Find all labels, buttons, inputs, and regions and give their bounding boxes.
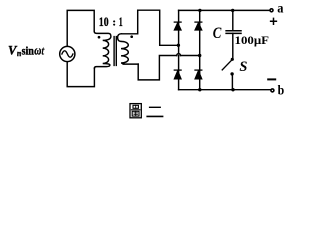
caption glyph tu (figure) <box>130 104 141 118</box>
wire: bottom rail to terminal b <box>179 89 271 91</box>
node: capacitor / top wire <box>231 9 234 12</box>
svg-text:S: S <box>239 59 247 75</box>
AC source sine symbol <box>62 51 73 57</box>
label 10 : 1 <box>99 15 123 29</box>
secondary polarity dot <box>130 35 133 38</box>
svg-text:sin: sin <box>22 45 35 57</box>
svg-text:b: b <box>278 82 285 97</box>
diode D4 (bottom right) <box>195 70 202 79</box>
switch blade <box>222 60 231 70</box>
svg-text:1: 1 <box>119 15 123 29</box>
transformer primary winding <box>94 31 111 68</box>
caption glyph er (two) <box>147 107 162 116</box>
wire: secondary top lead staircase to bridge <box>121 10 178 45</box>
node: switch / bottom wire <box>231 88 234 91</box>
minus sign <box>268 78 275 80</box>
switch top contact <box>231 58 234 61</box>
svg-text:10: 10 <box>99 15 109 29</box>
wire: source bottom lead and bottom of primary loop <box>67 62 94 87</box>
svg-text:ω: ω <box>34 43 41 57</box>
node: crossover / right rail junction <box>198 54 201 57</box>
bridge right rail <box>199 10 201 89</box>
diode D2 (top right) <box>195 22 202 30</box>
node: right rail / top wire <box>198 9 201 12</box>
source label Vm sin wt <box>8 42 45 58</box>
node: secondary top lead / left rail junction <box>177 44 180 47</box>
primary polarity dot <box>98 36 101 39</box>
diode D1 (top left) <box>174 22 181 30</box>
wire: top rail to terminal a <box>179 9 271 11</box>
bridge left rail <box>178 10 180 89</box>
switch bottom lead <box>231 75 233 90</box>
node: right rail / bottom wire <box>198 88 201 91</box>
AC source V1 circle <box>60 46 75 61</box>
svg-text:100μF: 100μF <box>235 33 270 47</box>
transformer core lines <box>114 37 116 66</box>
wire: secondary bottom lead <box>138 56 177 80</box>
switch bottom contact <box>230 72 233 75</box>
terminal a circle <box>270 9 273 12</box>
plus sign <box>271 18 277 24</box>
svg-text:C: C <box>213 25 222 42</box>
capacitor C top lead <box>232 10 234 30</box>
diode D3 (bottom left) <box>174 70 181 79</box>
wire: source top lead and top of primary loop <box>67 10 94 46</box>
wire: crossover to right rail <box>181 55 200 57</box>
terminal b circle <box>271 89 274 92</box>
svg-text:a: a <box>277 2 283 17</box>
transformer secondary winding <box>118 34 139 64</box>
svg-text::: : <box>112 16 116 28</box>
crossover hop <box>177 54 181 56</box>
switch S top lead <box>232 33 234 57</box>
capacitor C plates <box>226 31 241 34</box>
